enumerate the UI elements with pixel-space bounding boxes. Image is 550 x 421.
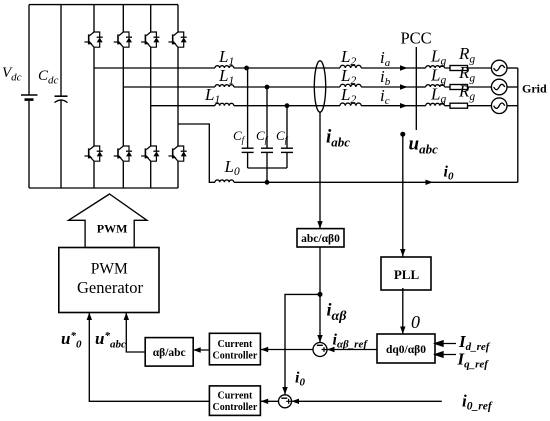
block current controller 1 xyxy=(209,333,260,365)
svg-text:0: 0 xyxy=(411,312,420,332)
node filter neutral xyxy=(265,180,270,185)
capacitor Cf c xyxy=(281,106,293,168)
wire iabc to abc block xyxy=(319,112,321,228)
wire phase A xyxy=(94,67,215,69)
transistor Q8 xyxy=(168,146,186,161)
inductor L2a xyxy=(340,65,361,68)
wire leg 4 xyxy=(177,5,179,188)
inductor L2b xyxy=(340,84,361,87)
summing junction 2 xyxy=(279,395,292,408)
transistor Q4 xyxy=(168,32,186,47)
inductor L1a xyxy=(215,66,234,68)
node phase A filter tap xyxy=(244,66,249,71)
block PLL xyxy=(381,257,431,290)
inductor L1b xyxy=(215,85,234,87)
svg-text:αβ/abc: αβ/abc xyxy=(153,347,186,359)
summing junction 1 xyxy=(313,343,327,357)
node phase B filter tap xyxy=(265,85,270,90)
capacitor Cf a xyxy=(242,68,254,168)
arrow i0 xyxy=(426,180,434,185)
wire grid bus xyxy=(517,68,519,182)
arrow uabc* into PWM gen xyxy=(124,313,129,321)
resistor Rg a xyxy=(445,66,492,71)
inductor L1c xyxy=(215,103,234,105)
node phase C filter tap xyxy=(285,103,290,108)
wire leg 3 xyxy=(150,5,152,188)
inductor L2c xyxy=(340,103,361,106)
arrow into sum2 right xyxy=(292,399,300,404)
inductor L0 xyxy=(215,180,234,182)
arrow ic xyxy=(400,103,408,108)
transistor Q1 xyxy=(84,32,102,47)
arrow Iq_ref xyxy=(435,352,456,357)
wire uabc to PLL xyxy=(402,134,404,256)
inductor Lg a xyxy=(416,67,425,69)
wire bottom DC bus xyxy=(29,187,178,189)
block dq0/ab0 xyxy=(377,334,435,363)
wire filter common xyxy=(248,168,287,182)
arrow into CC2 xyxy=(261,399,269,404)
svg-text:PWM: PWM xyxy=(97,222,128,236)
arrow into abc block xyxy=(317,221,322,229)
transistor Q5 xyxy=(84,146,102,161)
arrow u0* into PWM gen xyxy=(87,313,92,321)
svg-text:dq0/αβ0: dq0/αβ0 xyxy=(386,344,426,356)
svg-text:abc/αβ0: abc/αβ0 xyxy=(301,233,340,245)
source Gc xyxy=(491,98,517,114)
block abc/ab0 xyxy=(297,229,344,247)
wire top DC bus xyxy=(29,4,178,6)
node i0 branch xyxy=(285,294,320,394)
inductor Lg c xyxy=(416,105,425,107)
arrow into sum1 right xyxy=(327,347,335,352)
block ab/abc xyxy=(145,338,193,367)
wire phase A after L1 xyxy=(234,67,340,69)
arrow into CC1 xyxy=(261,347,269,352)
svg-text:PCC: PCC xyxy=(401,29,432,48)
wire node to sum1 xyxy=(319,294,321,342)
wire leg 1 xyxy=(93,5,95,188)
arrow ia xyxy=(400,65,408,70)
inductor Lg b xyxy=(416,86,425,88)
arrow into sum1 xyxy=(317,335,322,343)
svg-text:Current: Current xyxy=(217,339,252,350)
wire phase C xyxy=(151,105,215,107)
source Gb xyxy=(491,79,517,95)
wire abc block to node xyxy=(319,247,321,294)
arrow ib xyxy=(400,84,408,89)
wire dq0 to sum1 xyxy=(327,349,377,351)
arrow Id_ref xyxy=(435,341,456,346)
PWM block arrow xyxy=(69,194,148,248)
transistor Q3 xyxy=(141,32,159,47)
wire PLL to dq0 xyxy=(402,288,404,334)
battery Vdc xyxy=(21,5,38,188)
wire i0_ref to sum2 xyxy=(292,400,442,402)
node uabc tap xyxy=(400,132,405,137)
block PWM generator xyxy=(59,248,159,313)
wire sum2 to CC2 xyxy=(261,400,279,402)
resistor Rg b xyxy=(445,85,492,90)
block current controller 2 xyxy=(209,386,260,416)
transistor Q6 xyxy=(114,146,132,161)
svg-text:PWM: PWM xyxy=(91,261,128,278)
svg-text:Controller: Controller xyxy=(212,351,257,362)
source Ga xyxy=(491,60,517,76)
wire neutral from leg4 xyxy=(178,124,215,182)
transistor Q2 xyxy=(114,32,132,47)
svg-text:Controller: Controller xyxy=(212,402,257,413)
wire sum1 to CC1 xyxy=(261,349,313,351)
arrow into sum2 xyxy=(282,387,287,395)
arrow into ab/abc xyxy=(193,347,201,352)
wire phase C after L1 xyxy=(234,105,340,107)
arrow into PLL xyxy=(400,249,405,257)
svg-text:Current: Current xyxy=(217,391,252,402)
wire phase A to PCC xyxy=(361,67,416,69)
wire phase B to PCC xyxy=(361,86,416,88)
capacitor Cf b xyxy=(261,87,273,168)
wire PCC bus xyxy=(415,47,417,130)
transistor Q7 xyxy=(141,146,159,161)
svg-text:PLL: PLL xyxy=(394,267,420,282)
current sensor ellipse xyxy=(314,61,325,112)
wire phase C to PCC xyxy=(361,105,416,107)
wire ab/abc to PWM gen xyxy=(126,313,145,353)
resistor Rg c xyxy=(445,103,492,108)
svg-text:Grid: Grid xyxy=(522,82,547,96)
capacitor Cdc xyxy=(55,5,68,188)
node i_alphabeta0 xyxy=(318,292,323,297)
arrow into dq0 xyxy=(400,327,405,335)
wire CC1 to ab/abc xyxy=(193,349,209,351)
wire phase B xyxy=(123,86,215,88)
wire leg 2 xyxy=(122,5,124,188)
svg-text:Generator: Generator xyxy=(77,278,143,297)
wire CC2 to PWM gen xyxy=(89,313,209,402)
wire phase B after L1 xyxy=(234,86,340,88)
wire i0 line xyxy=(234,181,518,183)
